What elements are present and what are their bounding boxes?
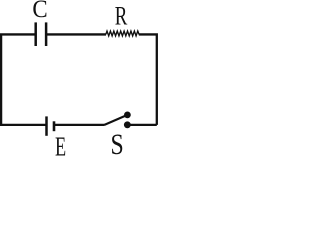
wire: top-right segment and right side <box>139 34 157 124</box>
svg-text:E: E <box>55 132 66 156</box>
resistor R zigzag <box>106 31 139 36</box>
svg-text:R: R <box>115 1 128 31</box>
switch S contact dot upper <box>124 112 131 119</box>
capacitor C plate right <box>45 22 48 46</box>
wire: top-left segment, left side, bottom-left segment to battery <box>1 34 46 124</box>
svg-text:S: S <box>110 128 123 156</box>
switch S blade <box>104 115 127 125</box>
svg-text:C: C <box>32 0 47 23</box>
battery E long plate <box>45 116 48 135</box>
wire: bottom middle (battery to switch) <box>55 124 105 126</box>
capacitor C plate left <box>34 22 37 46</box>
wire: top middle (capacitor to resistor) <box>47 33 107 35</box>
switch S contact dot lower <box>124 121 131 128</box>
battery E short plate <box>53 121 56 131</box>
wire: bottom-right (corner to switch lower contact) <box>130 124 157 126</box>
